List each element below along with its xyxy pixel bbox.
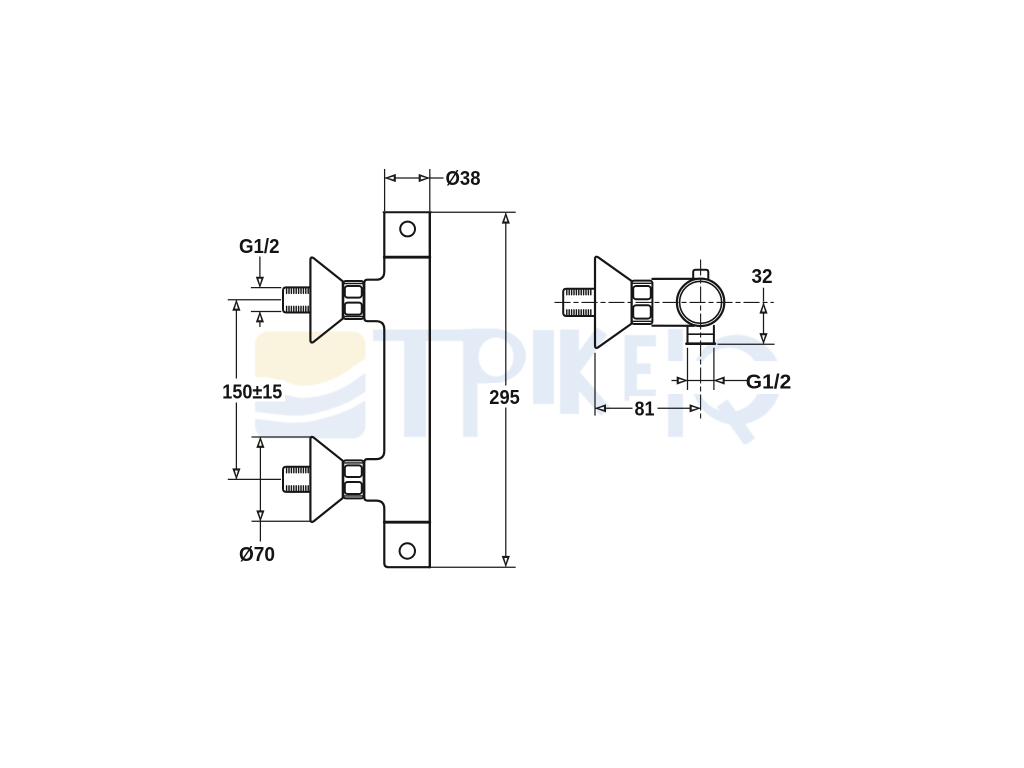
arrow 150 bottom <box>232 468 240 479</box>
arrow 81 right <box>690 404 701 412</box>
svg-text:G1/2: G1/2 <box>239 236 280 258</box>
letter T stem <box>404 330 426 438</box>
arrow G1/2 front top <box>256 277 264 288</box>
svg-text:150±15: 150±15 <box>222 381 282 403</box>
dim 32 bottom ext <box>718 343 775 345</box>
dim 295 bottom extension <box>431 566 516 568</box>
upper inlet connection <box>283 257 364 342</box>
front body left outline with connection bumps <box>364 212 430 567</box>
arrow Ø70 bottom <box>256 510 264 521</box>
dim G1/2 ext bottom <box>251 311 281 313</box>
side escutcheon cone <box>595 257 632 348</box>
dim 150 line <box>235 300 237 479</box>
dim 295 line <box>505 213 507 566</box>
bottom mounting hole <box>400 543 415 558</box>
watermark logo square <box>252 329 781 443</box>
dim Ø70 line <box>259 437 261 541</box>
text mask 150±15 <box>219 380 285 402</box>
top stub <box>693 270 708 279</box>
lower inlet connection <box>283 437 364 522</box>
svg-text:Ø38: Ø38 <box>446 168 481 190</box>
valve head outer circle <box>677 279 724 326</box>
letter I bar <box>533 330 554 404</box>
text mask 295 <box>487 383 523 410</box>
valve barrel bottom edge <box>652 325 694 327</box>
dim Ø38 line <box>385 177 444 179</box>
letter E stem <box>625 335 638 401</box>
dim 81 line <box>596 407 701 409</box>
escutcheon cone <box>310 257 342 342</box>
letter K stem <box>560 330 579 415</box>
thread ticks <box>287 288 309 311</box>
dim 32 leader <box>763 288 765 302</box>
svg-text:Ø70: Ø70 <box>239 544 275 566</box>
arrow 295 top <box>502 212 510 223</box>
arrow 295 bottom <box>502 556 510 567</box>
side threaded nipple <box>563 289 595 316</box>
threaded nipple <box>283 287 311 312</box>
top mounting plate bottom edge <box>384 256 430 259</box>
svg-text:G1/2: G1/2 <box>746 371 792 393</box>
letter P bowl <box>471 329 526 384</box>
front body right edge <box>429 212 431 567</box>
letter P stem <box>463 329 478 437</box>
valve head inner circle <box>680 281 722 323</box>
front body top edge <box>384 211 431 213</box>
arrow G1/2 front bottom <box>256 311 264 322</box>
dim Ø38 extension lines <box>384 169 386 211</box>
dim 81 ext line <box>594 353 596 416</box>
hex nut <box>343 281 363 319</box>
arrow Ø38 right <box>419 174 430 182</box>
horizontal centre line <box>555 301 774 303</box>
lower connection centre ext line <box>228 478 281 480</box>
vertical centre line <box>700 260 702 419</box>
dim G1/2 side ext lines <box>688 348 714 390</box>
letter R leg <box>722 403 750 442</box>
letter E bottom bar <box>625 390 657 402</box>
side thread ticks <box>567 290 591 315</box>
text mask 81 <box>629 396 660 419</box>
dim G1/2 lower tail <box>259 312 261 328</box>
dim G1/2 leader <box>259 257 261 287</box>
arrow Ø38 left <box>385 174 396 182</box>
svg-text:32: 32 <box>752 266 773 288</box>
arrow Ø70 top <box>256 437 264 448</box>
top mounting hole <box>400 222 415 237</box>
letter E top bar <box>625 335 657 347</box>
watermark letters TPIKER <box>373 329 781 443</box>
svg-text:295: 295 <box>489 387 520 409</box>
dim Ø70 ext bottom <box>252 520 311 522</box>
dim G1/2 ext top <box>251 287 281 289</box>
letter R stem <box>668 329 683 437</box>
letter T bar <box>373 330 463 342</box>
text mask G1/2 side dimension <box>666 361 796 394</box>
valve barrel top edge <box>652 278 696 280</box>
letter K arms <box>572 331 606 412</box>
side hex nut <box>632 281 653 324</box>
bottom mounting plate top edge <box>384 521 430 524</box>
side view centre lines <box>555 260 774 419</box>
dim 32 line <box>763 303 765 344</box>
letter R bowl <box>691 335 781 425</box>
svg-text:81: 81 <box>635 399 655 421</box>
dim G1/2 side line <box>672 380 748 382</box>
arrow 32 top <box>759 302 767 313</box>
upper connection centre ext line <box>228 299 281 301</box>
dim 295 top extension <box>431 211 516 213</box>
arrow G1/2 side right <box>713 376 724 384</box>
arrow G1/2 side left <box>677 376 688 384</box>
arrow 32 bottom <box>759 333 767 344</box>
arrow 81 left <box>595 404 606 412</box>
letter E mid bar <box>625 364 651 375</box>
arrow 150 top <box>232 299 240 310</box>
bottom outlet stub <box>688 326 714 344</box>
dim Ø70 ext top <box>252 436 311 438</box>
